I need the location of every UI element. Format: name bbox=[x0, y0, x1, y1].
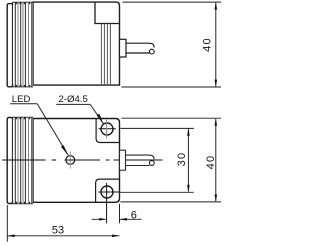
dimension 53 dimension line bbox=[7, 235, 119, 237]
dimension 30 dimension line bbox=[187, 129, 189, 192]
side view cable bbox=[126, 43, 154, 53]
front view body outline bbox=[33, 119, 120, 203]
side view rib lines bbox=[15, 2, 32, 87]
front view ribbed section outline bbox=[13, 118, 33, 204]
front view faceplate bbox=[7, 118, 12, 204]
svg-text:40: 40 bbox=[202, 37, 214, 52]
bottom hole crosshairs bbox=[99, 191, 120, 193]
dimension 30 extension lines bbox=[120, 128, 194, 192]
dimension 6 dimension line with outside arrows bbox=[92, 218, 142, 220]
front view cable end loop bbox=[149, 161, 154, 166]
front view cable gland bbox=[120, 150, 126, 170]
LED vertical crosshair bbox=[69, 152, 71, 169]
top hole crosshairs bbox=[99, 128, 116, 130]
svg-text:30: 30 bbox=[176, 152, 188, 167]
front view top mounting lug bbox=[96, 119, 119, 143]
side view faceplate bbox=[7, 4, 12, 87]
dimension 40 (front view) extension lines bbox=[120, 118, 221, 202]
2-Ø4.5 leader arrowhead bbox=[97, 114, 104, 124]
side view cable end loop bbox=[149, 49, 154, 54]
side view ribbed section outline bbox=[13, 3, 33, 87]
svg-text:2-Ø4.5: 2-Ø4.5 bbox=[59, 94, 88, 105]
side view body outline bbox=[33, 2, 120, 85]
dimension 6 extension line (body edge) bbox=[119, 204, 121, 224]
svg-text:LED: LED bbox=[12, 94, 31, 105]
mounting hole top (2-Ø4.5) bbox=[101, 123, 113, 135]
svg-text:40: 40 bbox=[205, 155, 217, 170]
dimension 40 (front view) arrowheads bbox=[215, 118, 218, 125]
svg-text:53: 53 bbox=[52, 225, 64, 237]
centerline (dash-dot) bbox=[2, 159, 162, 161]
front view rib lines bbox=[15, 117, 32, 204]
dimension 40 (front view) dimension line bbox=[215, 119, 217, 201]
LED leader line bbox=[37, 104, 68, 155]
side view clamp lines under housing bbox=[101, 24, 110, 86]
front view cable bbox=[126, 155, 155, 165]
dimension 6 arrowheads bbox=[99, 218, 106, 221]
dimension 40 (side view) arrowheads bbox=[215, 2, 218, 9]
2-Ø4.5 leader line bbox=[90, 104, 103, 123]
dimension 53 arrowheads bbox=[7, 235, 14, 238]
2-Ø4.5 underline bbox=[56, 103, 90, 105]
dimension 40 (side view) dimension line bbox=[215, 3, 217, 87]
svg-text:6: 6 bbox=[131, 209, 137, 221]
side view cable gland bbox=[120, 39, 127, 57]
dimension 53 extension line (left) bbox=[6, 205, 8, 242]
dimension 30 arrowheads bbox=[187, 128, 190, 135]
side view cable housing block bbox=[95, 2, 120, 23]
dimension 40 (side view) extension lines bbox=[122, 2, 222, 87]
mounting hole bottom bbox=[101, 186, 113, 198]
LED leader arrowhead bbox=[61, 145, 68, 155]
LED indicator circle bbox=[66, 156, 75, 165]
front view bottom mounting lug bbox=[96, 179, 120, 202]
LED label underline bbox=[10, 103, 37, 105]
